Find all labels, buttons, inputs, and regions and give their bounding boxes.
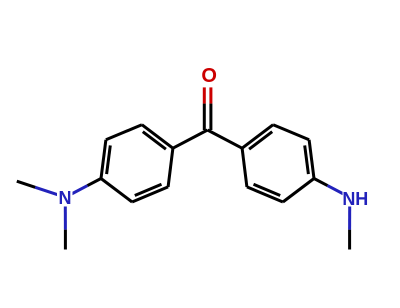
svg-text:O: O	[201, 65, 217, 87]
svg-text:N: N	[342, 189, 355, 209]
svg-text:N: N	[59, 188, 72, 208]
svg-text:H: H	[355, 189, 368, 209]
